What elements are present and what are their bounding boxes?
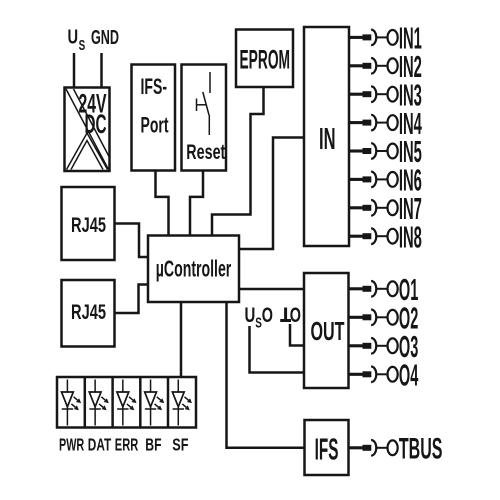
svg-text:TBUS: TBUS	[399, 433, 443, 466]
svg-text:O4: O4	[399, 358, 418, 392]
svg-text:IN8: IN8	[399, 219, 422, 254]
wire IFS-Port to uController	[156, 171, 169, 236]
svg-text:OUT: OUT	[311, 316, 345, 346]
terminal O4	[349, 358, 419, 392]
wire GND lead	[100, 53, 103, 88]
svg-text:RJ45: RJ45	[71, 213, 106, 237]
wire EPROM to uController	[212, 87, 264, 236]
svg-text:SF: SF	[172, 435, 188, 455]
LED DAT	[89, 380, 109, 426]
svg-text:U: U	[245, 304, 256, 327]
wire uController to IFS	[227, 302, 305, 448]
terminal IN1	[349, 21, 422, 56]
svg-text:S: S	[79, 37, 86, 54]
terminal IN7	[349, 191, 422, 226]
terminal IN4	[349, 106, 422, 141]
EPROM box	[236, 30, 293, 88]
svg-text:IFS: IFS	[315, 431, 339, 466]
svg-text:PWR: PWR	[59, 435, 84, 455]
label ground-O	[280, 304, 301, 327]
LED SF	[172, 380, 192, 426]
terminal IN3	[349, 77, 422, 112]
OUT box	[304, 273, 349, 388]
wire RJ45-1 to uController	[115, 224, 149, 258]
RJ45 box 2	[62, 280, 115, 347]
power supply 24V DC	[65, 88, 110, 172]
LED ERR	[117, 380, 137, 426]
wire uController to IN	[239, 138, 304, 250]
svg-text:Reset: Reset	[186, 141, 225, 164]
RJ45 box 1	[62, 187, 115, 260]
svg-text:DAT: DAT	[88, 435, 112, 455]
svg-text:Port: Port	[141, 113, 169, 138]
terminal IN8	[349, 219, 422, 254]
svg-text:ERR: ERR	[115, 435, 139, 455]
terminal TBUS	[349, 433, 443, 466]
microcontroller box U1	[148, 236, 239, 303]
wire uController to LED block	[180, 302, 183, 377]
wire Reset to uController	[190, 171, 203, 236]
svg-text:DC: DC	[85, 109, 107, 139]
LED BF	[145, 380, 165, 426]
terminal IN6	[349, 163, 422, 198]
svg-text:IN: IN	[319, 121, 336, 156]
svg-text:O: O	[262, 304, 273, 327]
wire ground-O to OUT	[290, 324, 304, 346]
terminal IN5	[349, 134, 422, 169]
wire RJ45-2 to uController	[115, 285, 149, 314]
terminal IN2	[349, 49, 422, 84]
svg-text:O: O	[290, 304, 301, 327]
svg-text:IFS-: IFS-	[141, 74, 168, 99]
svg-text:EPROM: EPROM	[240, 45, 291, 75]
Reset box	[182, 65, 227, 171]
svg-text:GND: GND	[91, 26, 119, 49]
svg-text:BF: BF	[145, 435, 161, 455]
terminal O3	[349, 330, 419, 364]
LED block	[57, 377, 196, 428]
label US	[68, 26, 86, 55]
wire uController to OUT	[239, 288, 304, 291]
IN box	[304, 27, 349, 246]
label UsO	[245, 304, 274, 332]
wire UsO to OUT	[250, 326, 305, 373]
IFS-Port box	[132, 65, 176, 171]
svg-text:RJ45: RJ45	[71, 300, 106, 324]
wire US lead	[73, 53, 76, 88]
LED PWR	[62, 380, 82, 426]
svg-text:µController: µController	[156, 255, 232, 281]
terminal O2	[349, 301, 419, 335]
terminal O1	[349, 273, 419, 307]
svg-text:U: U	[68, 26, 79, 49]
IFS box	[305, 420, 349, 475]
